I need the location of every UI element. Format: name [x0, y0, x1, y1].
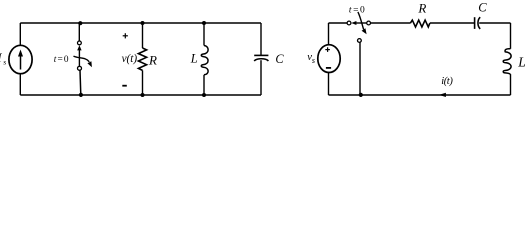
- wire bottom rail left circuit: [20, 94, 261, 96]
- node dot at bottom of switch wire: [359, 93, 363, 97]
- svg-text:L: L: [517, 55, 525, 70]
- svg-text:C: C: [478, 1, 487, 15]
- capacitor C right circuit (curved plate): [475, 17, 481, 29]
- wire left rail above source: [328, 23, 330, 45]
- voltage source vs (ellipse): [318, 45, 340, 73]
- wire switch branch lower: [79, 70, 82, 95]
- node dot bottom of inductor branch: [202, 93, 206, 97]
- wire top rail from switch to resistor: [371, 22, 411, 24]
- wire switch branch upper: [78, 23, 80, 41]
- svg-text:t=0: t=0: [54, 55, 70, 65]
- resistor R right circuit (horizontal zigzag): [410, 20, 430, 27]
- wire left rail below source: [328, 73, 330, 96]
- svg-text:R: R: [417, 1, 426, 16]
- wire top rail from capacitor to right corner: [479, 22, 510, 24]
- wire resistor branch lower: [142, 70, 144, 95]
- label + of v(t): [123, 33, 128, 38]
- node dot top of inductor branch: [202, 21, 206, 25]
- node dot bottom of switch branch: [79, 93, 83, 97]
- node dot top of resistor branch: [141, 21, 145, 25]
- wire left rail below current source: [19, 74, 21, 96]
- svg-text:R: R: [148, 52, 157, 67]
- capacitor C left circuit (curved plate): [254, 55, 268, 61]
- wire resistor branch upper: [142, 23, 144, 48]
- wire right rail above inductor: [510, 23, 512, 49]
- wire bottom rail right circuit: [329, 94, 511, 96]
- current direction arrow i(t) on bottom rail: [439, 93, 446, 97]
- svg-text:s: s: [312, 56, 315, 65]
- switch SW2 (SPDT, horizontal): [347, 12, 370, 42]
- svg-text:t=0: t=0: [349, 5, 366, 15]
- svg-text:C: C: [275, 52, 284, 66]
- node dot bottom of resistor branch: [141, 93, 145, 97]
- wire inductor branch lower: [203, 75, 205, 95]
- wire top rail left circuit: [20, 22, 261, 24]
- wire top rail from source to switch: [329, 22, 348, 24]
- svg-text:i(t): i(t): [441, 76, 453, 87]
- node dot top of switch branch: [78, 21, 82, 25]
- wire inductor branch upper: [203, 23, 205, 46]
- wire left rail above current source: [19, 23, 21, 46]
- wire capacitor branch lower: [260, 60, 262, 95]
- svg-text:L: L: [190, 52, 198, 66]
- inductor L (left circuit coil): [201, 46, 208, 75]
- wire right rail below inductor: [510, 75, 512, 95]
- svg-text:v(t): v(t): [122, 53, 138, 65]
- current source Is (ellipse): [9, 45, 32, 73]
- inductor L right circuit (coil): [503, 49, 511, 75]
- switch SW1 (closing, vertical): [74, 41, 92, 70]
- resistor R (vertical zigzag): [138, 48, 146, 70]
- svg-text:s: s: [3, 57, 6, 66]
- wire capacitor branch upper (right rail of left circuit): [260, 23, 262, 55]
- label - of v(t): [122, 85, 127, 87]
- wire from lower switch contact to bottom rail: [359, 42, 361, 95]
- wire top rail from resistor to capacitor: [430, 22, 475, 24]
